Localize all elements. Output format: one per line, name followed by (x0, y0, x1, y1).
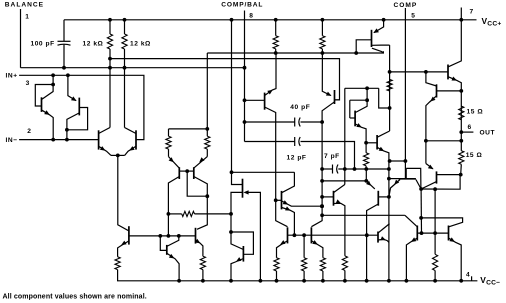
transistor Q11 (sideways PNP) (242, 179, 244, 198)
capacitor C3 12 pF (245, 141, 295, 143)
resistor R12 (303, 235, 305, 258)
V CC- bottom rail (118, 270, 478, 281)
svg-text:5: 5 (411, 12, 415, 19)
svg-text:COMP/BAL: COMP/BAL (221, 1, 263, 8)
svg-text:COMP: COMP (394, 2, 418, 9)
wire OUT to QB emitter (426, 140, 461, 142)
svg-text:1: 1 (25, 14, 29, 21)
wire node C (y=53 bus) (207, 51, 383, 53)
svg-text:2: 2 (27, 128, 31, 135)
svg-text:40 pF: 40 pF (290, 104, 310, 111)
IN- wire to Q3 base (19, 139, 98, 141)
transistor Q20 (bottom NPN right) (310, 227, 312, 243)
junction dots on IN+ wire (51, 73, 55, 77)
wire y=215 link (322, 214, 405, 216)
pin 1 lead wire (20, 9, 22, 68)
wire y=181 (322, 180, 366, 182)
svg-text:15 Ω: 15 Ω (467, 109, 484, 116)
transistor QD (bottom right NPN left) (416, 226, 418, 241)
junction dots on comp chain (388, 70, 392, 74)
svg-text:3: 3 (26, 80, 30, 87)
bottom rail junction dots (177, 279, 181, 283)
resistor R8 (365, 143, 367, 153)
svg-text:BALANCE: BALANCE (5, 1, 44, 8)
transistor Q9 (PNP second stage) (334, 90, 336, 104)
transistor Q21 (diode NPN bottom) (377, 232, 379, 243)
wire x=421 drop (420, 189, 422, 233)
transistor Q4 (input NPN, IN+) (135, 130, 137, 149)
resistor R17 (200, 256, 205, 269)
wire QA base bus (390, 71, 448, 73)
transistor Q13 (center NPN) (264, 93, 266, 110)
wire tail to Q5 collector (118, 155, 129, 231)
junction dots on node B (62, 66, 66, 70)
resistor R13 (320, 258, 325, 271)
svg-text:4: 4 (466, 271, 470, 278)
transistor Q7 (mirror output) (195, 228, 197, 244)
junction dots on mirror base bus (158, 234, 162, 238)
junction dots on QD/QE base wire (420, 231, 424, 235)
transistor Q16 (bottom NPN left) (287, 227, 289, 243)
junction dots on 7pF net (343, 167, 347, 171)
wire y=88 link (345, 87, 379, 89)
wire C drop to mirror (206, 53, 208, 129)
wire y=172 to Q10 collector (232, 171, 295, 173)
pin 4 lead (471, 276, 473, 281)
transistor Q19 (PNP, x=378.3) (377, 191, 379, 206)
wire QD/QE base join (417, 232, 448, 234)
wire mirror base bus (129, 235, 196, 237)
wire A 12k bus to Q9 base (110, 59, 340, 100)
svg-text:100 pF: 100 pF (31, 41, 55, 48)
svg-text:15 Ω: 15 Ω (466, 152, 483, 159)
svg-text:12 kΩ: 12 kΩ (83, 41, 104, 48)
junction dots on output emitter chain (459, 89, 463, 93)
transistor Q3 (input NPN, IN-) (98, 130, 100, 149)
resistor R6 (206, 129, 208, 136)
wire bottom mirror base bus (288, 234, 379, 236)
pin 5 lead (404, 8, 406, 179)
transistor Q18 (NPN, x=333.5) (333, 191, 335, 206)
junction dots on Q9 collector chain (320, 167, 324, 171)
resistor R7 (horizontal) (167, 212, 171, 216)
resistor R9 (387, 79, 392, 91)
wire mirror base join (179, 170, 194, 172)
transistor QA (output NPN top right) (447, 65, 449, 80)
wire drop to bottom mirror bases (434, 189, 436, 233)
capacitor C1 100 pF (63, 20, 65, 42)
transistor Q5 (tail current source) (128, 226, 130, 244)
transistor Q14 (diode NPN) (354, 111, 356, 127)
svg-text:7 pF: 7 pF (324, 153, 340, 160)
V CC+ top rail (64, 19, 477, 21)
junction dots on VCC+ rail (108, 18, 112, 22)
resistor R4 (321, 20, 323, 36)
svg-text:12 kΩ: 12 kΩ (130, 41, 151, 48)
transistor Q1 (input clamp diode NPN) (41, 97, 43, 112)
capacitor C4 7 pF (322, 168, 332, 170)
transistor Q10 (double emitter NPN) (281, 191, 283, 210)
svg-text:OUT: OUT (480, 130, 496, 137)
wire comp chain x=389.6 (389, 45, 391, 131)
transistor Q5b (mirror PNP right, diode) (193, 167, 195, 179)
resistor R16 (434, 233, 436, 254)
wire mirror top (169, 128, 208, 130)
wire node B (balance/comp bus) (21, 67, 245, 69)
resistor R3 (275, 20, 277, 36)
resistor R15 15 ohm lower (459, 151, 464, 165)
resistor R11 (274, 258, 279, 271)
wire Q3/Q4 emitter join (111, 154, 125, 156)
resistor R2 12 k (124, 20, 126, 34)
transistor Q5a (mirror PNP left) (178, 167, 180, 179)
transistor Q8 (diode-connected PNP, top) (371, 30, 373, 47)
wire mirror base to diode tie (187, 171, 207, 196)
wire pin5 jog (390, 160, 406, 162)
svg-text:12 pF: 12 pF (287, 155, 307, 162)
resistor R14 15 ohm upper (459, 106, 464, 120)
junction dots on node C (274, 51, 278, 55)
pin 6 tick (461, 131, 473, 133)
IN+ wire to Q4 base (19, 75, 144, 139)
wire jog to x=389.6 (379, 88, 390, 108)
wire diode tie (421, 175, 460, 190)
transistor Q12 (diode-connected NPN) (242, 246, 244, 262)
transistor Q6 (mirror diode) (166, 245, 168, 255)
pin 8 lead / comp network bus (244, 11, 246, 142)
junction dots on IN- wire (51, 138, 55, 142)
svg-text:IN+: IN+ (6, 73, 18, 80)
svg-text:6: 6 (468, 124, 472, 131)
wire to QE collector (421, 218, 463, 227)
junction dots on bottom mirror base bus (293, 233, 297, 237)
resistor R1 12 k (109, 20, 111, 34)
transistor QC (output PNP lower) (436, 171, 438, 183)
wire x=345 drop (344, 88, 346, 184)
svg-text:8: 8 (249, 12, 253, 19)
pin 7 lead (460, 8, 462, 20)
svg-text:All component values shown are: All component values shown are nominal. (3, 293, 147, 300)
svg-text:7: 7 (470, 9, 474, 16)
wire rail drop x=231.5 (232, 20, 243, 185)
transistor QE (bottom right NPN right, diode) (448, 226, 450, 241)
resistor R5 (168, 129, 170, 136)
transistor QB (PNP driver) (436, 84, 438, 97)
transistor Q15 (NPN right of R8) (376, 135, 378, 150)
svg-text:IN−: IN− (6, 137, 18, 144)
capacitor C2 40 pF (245, 121, 295, 123)
transistor Q17 (rotated NPN at COMP) (399, 178, 416, 180)
resistor R10 (342, 256, 347, 271)
transistor Q2 (input clamp diode PNP) (78, 98, 80, 116)
